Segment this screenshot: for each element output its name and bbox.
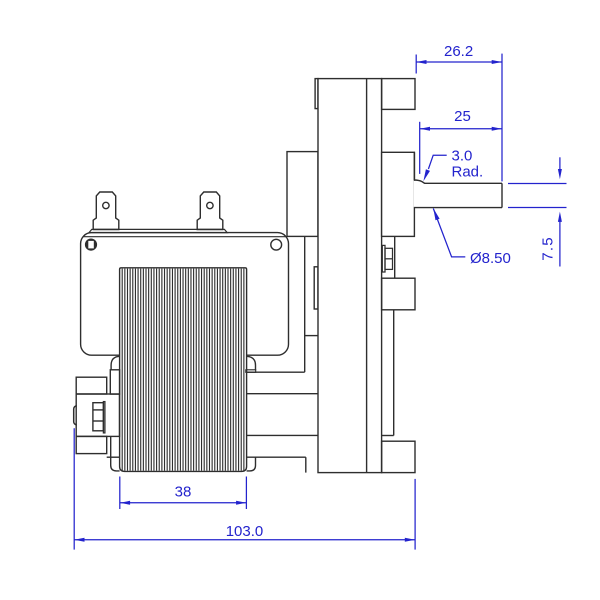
- hidden line y435: [247, 434, 318, 436]
- rear shaft bolt: [93, 403, 104, 431]
- extension line shaft end: [501, 54, 503, 182]
- terminal blade right: [197, 192, 223, 230]
- output shaft: [424, 182, 502, 184]
- svg-text:Ø8.50: Ø8.50: [470, 250, 511, 267]
- svg-text:3.0: 3.0: [452, 148, 473, 165]
- rear housing top band: [76, 377, 107, 394]
- gearbox mid-left strip: [314, 267, 318, 309]
- rear housing bottom band: [76, 436, 107, 453]
- svg-text:7.5: 7.5: [540, 236, 557, 260]
- lamination lines: [122, 269, 244, 471]
- output boss: [382, 152, 415, 236]
- dim 7.5: [508, 183, 567, 185]
- motor mounting bracket: [81, 233, 289, 356]
- svg-text:26.2: 26.2: [444, 43, 473, 60]
- washer: [382, 245, 385, 272]
- screw hole right: [271, 239, 282, 250]
- gearbox foot: [382, 441, 415, 472]
- gearbox top tab: [382, 79, 415, 110]
- flange lower vertical: [304, 236, 306, 372]
- left coil flange: [110, 370, 119, 394]
- svg-text:103.0: 103.0: [226, 523, 264, 540]
- svg-text:Rad.: Rad.: [452, 164, 484, 181]
- connector line to gearbox: [305, 335, 318, 337]
- gearbox cover split line: [366, 79, 368, 473]
- stator lamination stack: [120, 268, 247, 472]
- svg-text:38: 38: [175, 484, 192, 501]
- shaft mask: [414, 181, 502, 207]
- rear shaft tip arc: [74, 406, 77, 425]
- gearbox mid tab: [382, 278, 415, 310]
- housing-stack connector: [110, 436, 112, 457]
- left coil fillet: [111, 356, 120, 370]
- bracket top strip: [89, 229, 227, 232]
- adjuster screw block: [394, 236, 396, 278]
- bracket inner top line: [84, 236, 288, 238]
- hidden line y394: [247, 393, 318, 395]
- gearbox main body: [318, 79, 382, 473]
- left bottom cap: [111, 457, 120, 471]
- right coil bar: [246, 370, 256, 373]
- lower step line: [247, 456, 306, 458]
- svg-text:25: 25: [454, 108, 471, 125]
- right bottom cap: [247, 457, 256, 471]
- motor front flange rect: [287, 152, 318, 237]
- right coil fillet: [247, 356, 256, 370]
- shaft fillet 3mm: [414, 180, 424, 183]
- terminal blade left: [93, 192, 119, 230]
- nut: [385, 248, 393, 269]
- gearbox top-left step: [315, 79, 318, 109]
- hidden line y372: [247, 371, 305, 373]
- gearbox lower column: [393, 310, 395, 436]
- rear housing middle band: [76, 394, 119, 436]
- screw hole left: [86, 239, 97, 250]
